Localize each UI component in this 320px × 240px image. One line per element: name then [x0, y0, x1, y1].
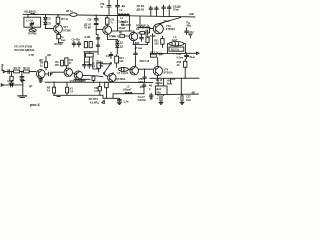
wire diagonal collector VT3 to rail	[157, 17, 181, 24]
label inside box	[156, 88, 162, 94]
wire T2 base	[96, 29, 103, 34]
wire long vertical x98	[97, 35, 99, 55]
svg-text:ПЧ 465: ПЧ 465	[28, 33, 37, 36]
legend text VT	[14, 46, 33, 49]
crystal box small	[84, 52, 98, 62]
resistor R8b	[146, 37, 149, 45]
svg-text:СМ: СМ	[88, 19, 92, 22]
wire box to choke oval	[31, 27, 33, 28]
transistor VT8	[108, 73, 116, 81]
svg-text:Дм: Дм	[122, 5, 126, 8]
svg-text:КТ606А: КТ606А	[166, 28, 175, 31]
label R4 51k	[28, 33, 37, 36]
resistor R12a	[97, 63, 101, 72]
wire horizontal y44.5	[133, 44, 148, 46]
ground under C27	[180, 101, 184, 105]
trimmer arrow in box	[30, 23, 34, 26]
svg-text:L5 14,9-8: L5 14,9-8	[117, 72, 128, 75]
wire T1 emitter chain bottom	[59, 42, 63, 44]
svg-text:1мк: 1мк	[61, 39, 66, 42]
capacitor hanging C10a	[107, 0, 111, 15]
svg-text:4П2: 4П2	[140, 86, 145, 89]
label ChP1	[138, 78, 145, 89]
label ris.6	[30, 103, 40, 107]
label VT1 KT368	[61, 18, 71, 33]
label VT2 KT368	[70, 80, 85, 83]
label +8V	[189, 12, 194, 16]
svg-text:Л 4В: Л 4В	[150, 35, 156, 38]
label L2	[120, 9, 124, 12]
label R21	[47, 86, 51, 92]
capacitor C28 left	[149, 93, 153, 99]
wire varicap to T1 base	[45, 27, 53, 28]
svg-text:R2 1к: R2 1к	[23, 67, 30, 70]
label R9 150	[55, 61, 60, 67]
capacitor C15	[145, 29, 150, 36]
svg-text:4,7В: 4,7В	[28, 54, 33, 57]
transistor VT3 KT606	[153, 24, 163, 34]
svg-text:ЧМ: ЧМ	[99, 65, 103, 68]
svg-text:КТ368: КТ368	[63, 29, 71, 32]
svg-text:0Вх: 0Вх	[156, 92, 161, 95]
label R18	[177, 61, 182, 67]
resistor R8 bias	[84, 42, 87, 48]
wire VT5 to VT6	[73, 73, 77, 75]
label IZ UPCH	[89, 98, 100, 104]
wire VT6 emitter right	[83, 75, 103, 77]
wire AGC line y81.4	[45, 79, 153, 82]
wire x22.8 down to bus	[17, 81, 27, 98]
svg-text:1Ем: 1Ем	[186, 99, 191, 102]
capacitor electrolytic C27	[177, 96, 183, 101]
wire rail to box	[27, 14, 29, 17]
wire -4V line	[167, 93, 199, 95]
resistor collector VT4	[44, 56, 47, 69]
resistor R7 collector T2	[105, 15, 109, 25]
wire L5 to VT7	[128, 69, 132, 71]
label IZ APCHM	[74, 80, 85, 83]
label Dm	[122, 5, 126, 8]
arrow UPCH	[102, 100, 105, 103]
capacitor C19	[185, 53, 189, 59]
resistor R10 box	[138, 32, 145, 35]
svg-text:+1,9В: +1,9В	[84, 36, 91, 39]
label 1Vk	[171, 78, 176, 81]
wire vertical x96 from rail	[95, 15, 97, 19]
wire T2 emitter to diode node	[108, 39, 118, 41]
label Dr2 above VT4	[28, 54, 51, 62]
resistor R3 collector T1	[56, 15, 60, 25]
capacitor C12	[88, 62, 92, 68]
svg-text:КВ ДИАП.: КВ ДИАП.	[25, 11, 37, 14]
capacitor C8 on x96	[94, 19, 98, 24]
capacitor C14 vertical	[106, 52, 113, 59]
svg-text:-4В: -4В	[191, 91, 195, 94]
varicap VD2	[44, 22, 47, 27]
resistor R5 emitter T1	[57, 33, 61, 43]
ground under R3	[9, 81, 14, 86]
label R10 C15	[140, 27, 150, 30]
label R11 130	[154, 40, 159, 46]
label R13 43	[189, 31, 194, 34]
inductor L2 bumps on rail	[118, 14, 130, 16]
inductor L6 oval on bus	[125, 92, 133, 94]
capacitor C1 input	[8, 70, 9, 74]
wire L4 combo stubs	[168, 44, 186, 54]
capacitor C24 bus	[98, 82, 101, 95]
label R14	[119, 57, 124, 63]
wire VT4 emitter	[39, 78, 43, 82]
junction dots	[11, 14, 186, 95]
svg-text:КВ АПЧ: КВ АПЧ	[121, 24, 131, 27]
resistor R21	[53, 82, 56, 95]
label VT9	[164, 68, 173, 74]
capacitor pair trimmer A	[149, 6, 153, 16]
transistor VT6 cascade	[74, 71, 82, 79]
svg-text:0,5мк: 0,5мк	[109, 35, 116, 38]
wire VT8 leads	[105, 72, 113, 82]
svg-text:ЮЛ С18: ЮЛ С18	[140, 60, 150, 63]
svg-text:7г: 7г	[110, 22, 112, 25]
terminal input FM arrow	[3, 70, 5, 72]
box input circuit L1	[24, 17, 41, 27]
wire x92.9 down	[93, 58, 99, 69]
svg-text:4Вa: 4Вa	[186, 24, 191, 27]
label OU	[135, 47, 143, 50]
svg-text:Н2О: Н2О	[138, 81, 143, 84]
svg-text:С12: С12	[189, 31, 194, 34]
label KV DIAP	[25, 11, 37, 14]
label R12a	[96, 60, 101, 63]
label KV 1v	[66, 10, 73, 13]
svg-text:R10 С15: R10 С15	[140, 27, 150, 30]
crystal symbol top right	[188, 34, 192, 38]
transistor VT5	[64, 68, 72, 76]
inductor ferrite rod L oval	[29, 29, 36, 32]
svg-text:КВ 1v: КВ 1v	[66, 10, 73, 13]
resistor R9a above VT5	[61, 60, 64, 66]
svg-text:Вых: Вых	[167, 83, 173, 86]
transistor VT9	[153, 66, 162, 75]
svg-text:1Вк: 1Вк	[171, 78, 176, 81]
label VD1 VD2	[120, 41, 124, 48]
transistor VT2	[103, 26, 112, 35]
resistor R9 bias	[89, 42, 92, 48]
wire x144 verticals and caps	[142, 82, 146, 93]
svg-text:С14: С14	[106, 55, 111, 58]
svg-text:ЦВ: ЦВ	[47, 54, 51, 57]
svg-text:0,022м: 0,022м	[138, 99, 146, 102]
capacitor C9 on x96	[94, 23, 98, 29]
label 4V 1.2 left of box	[149, 85, 152, 91]
label R23	[69, 88, 73, 94]
capacitor near right edge top	[185, 28, 189, 35]
capacitor C10 middle	[77, 41, 81, 47]
inductor L4 oval	[169, 42, 184, 46]
label AM CHM	[99, 61, 103, 67]
label 48a	[186, 21, 191, 27]
label C27 100mk	[186, 96, 191, 102]
label 37mA current arrow	[161, 20, 171, 24]
wire stub x21.9 down	[21, 71, 23, 76]
label L3 values	[118, 17, 127, 30]
capacitor on x98	[96, 38, 100, 46]
label KT368A VT8	[116, 78, 125, 81]
label R10	[136, 25, 141, 31]
wire AM input	[4, 84, 23, 86]
wire VT7 to VT9	[139, 68, 153, 70]
wire stub fragment	[57, 96, 60, 98]
legend text VD	[14, 49, 35, 52]
label C19 4.7mk	[176, 53, 183, 59]
diode VD2 detector	[116, 43, 119, 54]
wire VT2b collector up	[133, 31, 135, 32]
label +1.9V	[84, 36, 91, 39]
capacitor pair trimmer D	[167, 5, 171, 17]
inductor L5 oval	[119, 67, 129, 71]
capacitor C25 below bus	[118, 98, 122, 102]
wire input line y71.5	[6, 70, 36, 72]
label Vhod vertical	[0, 64, 4, 71]
capacitor coupling C5	[48, 72, 50, 76]
resistor R19 vertical	[92, 76, 95, 83]
svg-text:ДВ 4Ω: ДВ 4Ω	[137, 8, 145, 11]
svg-text:17мк: 17мк	[173, 9, 180, 12]
svg-text:47мкГ: 47мкГ	[118, 27, 126, 30]
wire output stub	[170, 78, 172, 83]
wire left side of L3 block	[117, 16, 119, 32]
resistor R2	[23, 67, 30, 73]
label R5	[61, 36, 66, 42]
label R7	[110, 19, 114, 25]
terminal input AM arrow	[1, 84, 3, 86]
label Vyh	[190, 56, 196, 59]
fuse oval KV on rail	[70, 13, 77, 17]
svg-text:1,2н: 1,2н	[123, 100, 128, 103]
wire x181.3 down	[180, 78, 182, 94]
label C1-C7	[138, 96, 146, 102]
labels near C8 C9	[84, 19, 92, 30]
svg-text:120: 120	[119, 60, 124, 63]
svg-text:ВЧ 1к: ВЧ 1к	[61, 18, 69, 21]
resistor R12 430	[161, 36, 164, 48]
label VD values	[48, 17, 52, 25]
capacitor C2 AM	[7, 80, 14, 87]
wire VT7 collector up	[134, 45, 138, 67]
svg-text:АЦОв: АЦОв	[155, 82, 163, 85]
transistor VT7	[130, 66, 139, 75]
transistor VT2b mixer	[129, 32, 137, 40]
svg-text:Вых: Вых	[190, 56, 196, 59]
svg-text:КТ361А: КТ361А	[164, 72, 173, 75]
label L6	[123, 86, 132, 92]
svg-text:1,4: 1,4	[94, 90, 98, 93]
label C11 C12	[92, 62, 96, 68]
svg-text:+8В: +8В	[189, 12, 194, 16]
resistor R3 shunt	[10, 76, 13, 81]
capacitor C17	[158, 53, 163, 55]
resistor R18	[184, 59, 187, 79]
wire top supply rail +8V	[23, 14, 195, 17]
label R16 C18	[140, 60, 150, 63]
capacitor C4 inside box	[30, 22, 34, 26]
label C24	[94, 87, 98, 93]
svg-text:рис.6: рис.6	[30, 103, 40, 107]
resistor R13 51 box	[169, 47, 184, 51]
resistor R23	[66, 82, 69, 95]
wire vertical x140 from rail	[138, 16, 150, 27]
svg-text:7,4: 7,4	[47, 89, 51, 92]
svg-text:130: 130	[154, 43, 159, 46]
svg-text:R6 51к: R6 51к	[55, 43, 64, 46]
resistor R14 chain	[115, 55, 119, 68]
capacitor electrolytic C26	[156, 96, 162, 101]
label ACR	[141, 24, 150, 27]
varicap VD1	[44, 15, 47, 22]
svg-text:4В: 4В	[119, 32, 122, 35]
capacitor C2 shunt	[20, 77, 24, 82]
label -4V	[191, 91, 195, 94]
wire bottom of L3 block	[112, 30, 133, 32]
transistor VT1	[54, 25, 63, 34]
diode VD1 detector	[116, 40, 119, 44]
resistor R17	[150, 51, 159, 57]
label C25	[123, 100, 128, 103]
capacitor pair trimmer B	[155, 6, 159, 16]
svg-text:VD1,VD2 КД503А: VD1,VD2 КД503А	[14, 49, 35, 52]
ground under C26	[159, 101, 163, 105]
switch S1 diagonal	[103, 63, 111, 75]
svg-text:Ч1 КП: Ч1 КП	[84, 27, 91, 30]
label SM 47	[100, 3, 104, 9]
capacitor hanging C10b	[116, 0, 120, 14]
label R11 47	[69, 59, 74, 65]
svg-text:100мкГ: 100мкГ	[123, 88, 132, 91]
wire y53.4 with arrow	[150, 52, 199, 54]
wire to C27	[181, 94, 183, 95]
resistor R8m base	[119, 32, 129, 38]
label L5	[117, 72, 128, 75]
svg-text:R13 51: R13 51	[171, 48, 180, 51]
choke Dr1 bumps on rail	[31, 13, 35, 14]
svg-text:R1 75: R1 75	[14, 67, 21, 70]
svg-text:4,3 МГц: 4,3 МГц	[90, 102, 100, 105]
label R7 1k	[40, 62, 44, 68]
filter box FP1P	[155, 78, 167, 96]
ground under C25	[117, 102, 122, 104]
label L4	[172, 36, 178, 42]
label RA	[113, 36, 119, 39]
wire R to VT5	[65, 66, 67, 69]
svg-text:1Ω: 1Ω	[136, 28, 139, 31]
svg-text:2,1: 2,1	[92, 65, 96, 68]
svg-text:7,4: 7,4	[69, 91, 73, 94]
resistor R25	[105, 82, 109, 98]
wire right side of L3 block	[128, 16, 130, 31]
label D1	[29, 85, 33, 88]
label L4V	[150, 35, 156, 38]
svg-text:С9 43н: С9 43н	[72, 38, 81, 41]
capacitor C15b below	[140, 34, 151, 41]
wire T2 emitter down	[107, 34, 109, 40]
wire switch feed	[101, 63, 110, 65]
svg-text:4,7мк: 4,7мк	[176, 56, 183, 59]
label 0.5mk	[109, 35, 116, 38]
label R6 51k	[55, 43, 64, 46]
label KT606A	[166, 25, 175, 31]
wire emitter row y78.3	[150, 76, 199, 79]
label SV DV 17mk	[173, 5, 181, 11]
wire VT4 to VT5	[45, 72, 64, 74]
label NCh Vyh	[167, 79, 173, 85]
label C9 C10	[72, 38, 81, 41]
capacitor C9a middle	[72, 41, 76, 47]
capacitor C11	[83, 62, 87, 68]
wire VT3 base left	[150, 28, 154, 30]
wire VT9 collector up	[157, 57, 159, 66]
transistor VT4 input	[36, 70, 45, 79]
label 37mkA	[120, 21, 131, 27]
svg-text:150: 150	[55, 64, 60, 67]
capacitor pair trimmer C	[162, 5, 166, 17]
svg-text:0,047: 0,047	[7, 80, 14, 83]
wire ground bus y93.2	[54, 94, 144, 99]
resistor R10a above VT5	[65, 58, 68, 66]
wire stub x11 down	[11, 71, 13, 76]
wire x144.6 cap down	[143, 69, 147, 82]
svg-text:ИЗ АПЧМ: ИЗ АПЧМ	[74, 80, 85, 83]
resistor R1	[14, 67, 21, 73]
svg-text:L1 С4: L1 С4	[26, 19, 33, 22]
svg-text:КТ368А: КТ368А	[116, 78, 125, 81]
label 4V 12 above box	[155, 79, 163, 85]
wire VT2b emitter down	[134, 41, 140, 45]
labels SV DV left	[137, 5, 145, 11]
wire VT3 emitter down x152.5	[152, 34, 154, 54]
